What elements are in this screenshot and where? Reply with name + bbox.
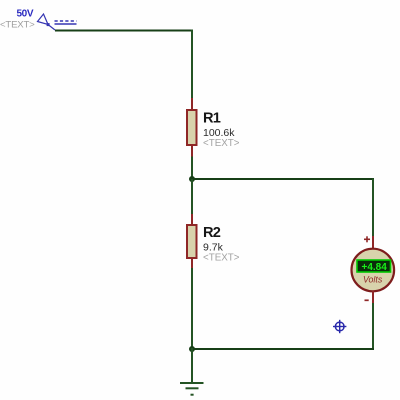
voltmeter minus label [365,299,369,301]
node junction dot mid [189,176,195,182]
resistor R1 pin bottom [191,145,193,158]
resistor R1 body [187,110,197,145]
resistor R2 body [187,225,197,258]
voltmeter plus label [364,236,370,242]
origin marker crosshair [333,320,346,333]
wire vertical R2 to bottom node [191,268,193,350]
resistor R2 pin top [191,214,193,225]
battery B1 terminal arrow [38,14,56,30]
wire bottom horizontal [192,348,374,350]
resistor R2 pin bottom [191,258,193,269]
voltmeter display panel [357,260,391,272]
resistor R1 pin top [191,98,193,110]
svg-text:<TEXT>: <TEXT> [203,253,240,264]
voltmeter pin top [372,236,374,250]
voltmeter pin bottom [372,291,374,304]
wire bottom node to ground [191,348,193,383]
battery B1 plates (dashed negative, solid positive) [55,21,77,24]
wire vertical node to R2 [191,179,193,215]
wire top horizontal from source to corner [55,30,193,32]
svg-text:+4.84: +4.84 [362,262,388,273]
svg-text:<TEXT>: <TEXT> [203,138,240,149]
svg-text:R2: R2 [203,225,221,241]
svg-text:50V: 50V [17,9,34,20]
wire main vertical upper (corner to R1) [191,30,193,100]
wire vertical R1 to node [191,157,193,181]
wire right vertical down to voltmeter [372,179,374,238]
wire voltmeter down to bottom corner [372,303,374,350]
svg-text:<TEXT>: <TEXT> [0,20,35,31]
ground symbol [180,383,204,395]
svg-text:R1: R1 [203,111,221,127]
svg-text:Volts: Volts [363,274,383,284]
node junction dot bottom [189,346,195,352]
voltmeter body circle [352,249,395,292]
wire node horizontal to voltmeter branch [192,178,374,180]
